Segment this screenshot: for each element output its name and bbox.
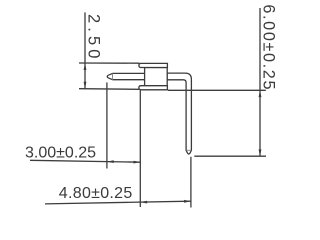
arrow down 6.00 xyxy=(259,149,262,156)
pin tip chamfer line xyxy=(112,74,114,80)
housing bottom flange xyxy=(139,86,168,90)
arrow left 4.80 xyxy=(140,201,147,204)
arrow right 3.00 xyxy=(134,161,141,164)
arrow up 6.00 xyxy=(259,90,262,97)
extension line right-bottom (pin tip to 6.00 dim) xyxy=(194,155,266,157)
housing body xyxy=(145,68,168,86)
housing top flange xyxy=(139,63,168,67)
pin (left horizontal, with chamfered tip) xyxy=(107,73,146,79)
extension line x=107 (pin tip down) xyxy=(106,82,108,168)
extension line bottom-left (housing bottom to 2.50 dim) xyxy=(79,88,139,91)
pin (right bend + vertical leg + bottom tip) xyxy=(167,73,191,154)
extension line top (housing top to 2.50 dim) xyxy=(79,62,140,64)
svg-text:6.00±0.25: 6.00±0.25 xyxy=(260,4,278,91)
dimension line 2.50 vertical xyxy=(84,12,86,88)
dimension line 3.00 with text leader xyxy=(30,160,140,162)
arrow down 2.50 xyxy=(84,82,87,89)
svg-text:4.80±0.25: 4.80±0.25 xyxy=(59,185,133,202)
extension line x=140.3 (housing left flange down) xyxy=(139,90,141,207)
dimension line 6.00 vertical xyxy=(259,8,261,156)
arrow right 4.80 xyxy=(184,200,191,203)
dimension line 4.80 with text leader xyxy=(45,201,191,204)
svg-text:2.50: 2.50 xyxy=(85,14,103,63)
svg-text:3.00±0.25: 3.00±0.25 xyxy=(25,145,96,162)
pin bottom chamfer line xyxy=(186,149,191,151)
arrow left 3.00 xyxy=(107,160,114,163)
extension line x=190.9 (pin bottom tip down) xyxy=(190,157,192,208)
extension line right-top (housing bottom to 6.00 dim) xyxy=(168,89,266,91)
arrow up 2.50 xyxy=(84,63,87,70)
